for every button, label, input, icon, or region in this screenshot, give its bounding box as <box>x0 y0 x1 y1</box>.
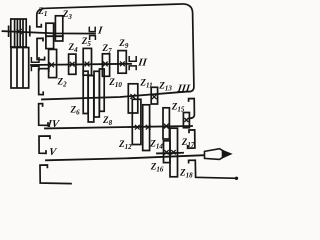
svg-text:Z2: Z2 <box>57 77 68 89</box>
svg-text:Z18: Z18 <box>179 167 193 179</box>
svg-text:Z17: Z17 <box>181 137 195 149</box>
svg-text:I: I <box>96 26 104 37</box>
svg-text:III: III <box>176 84 192 95</box>
svg-text:Z4: Z4 <box>68 42 79 54</box>
svg-text:Z11: Z11 <box>139 78 152 90</box>
svg-text:II: II <box>137 57 149 68</box>
svg-text:Z12: Z12 <box>118 139 132 151</box>
svg-text:Z16: Z16 <box>150 161 164 173</box>
svg-text:Z6: Z6 <box>70 105 81 117</box>
svg-text:Z13: Z13 <box>158 81 172 93</box>
svg-text:Z14: Z14 <box>149 138 163 150</box>
svg-text:Z9: Z9 <box>118 38 129 50</box>
svg-text:Z15: Z15 <box>171 102 185 114</box>
svg-text:Z8: Z8 <box>102 115 113 127</box>
svg-text:Z10: Z10 <box>108 77 122 89</box>
svg-text:V: V <box>48 147 57 158</box>
